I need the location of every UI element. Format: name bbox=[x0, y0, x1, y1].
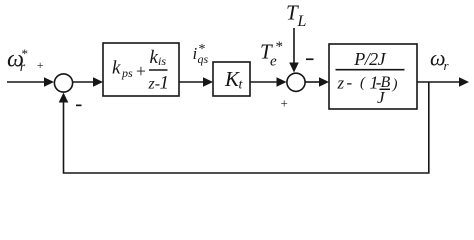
svg-text:): ) bbox=[392, 77, 398, 93]
svg-text:-: - bbox=[347, 73, 353, 92]
svg-text:e: e bbox=[270, 54, 277, 70]
svg-text:z: z bbox=[337, 74, 345, 93]
svg-text:+: + bbox=[281, 96, 288, 111]
svg-text:L: L bbox=[297, 13, 307, 30]
svg-text:*: * bbox=[276, 39, 284, 55]
svg-text:z-: z- bbox=[148, 76, 161, 93]
svg-text:1: 1 bbox=[160, 73, 170, 94]
svg-text:P/2J: P/2J bbox=[353, 49, 386, 69]
svg-text:is: is bbox=[158, 54, 166, 68]
svg-text:r: r bbox=[20, 60, 26, 75]
svg-text:ps: ps bbox=[121, 66, 133, 80]
svg-text:*: * bbox=[22, 46, 29, 61]
svg-text:+: + bbox=[136, 61, 146, 81]
svg-text:k: k bbox=[112, 58, 121, 79]
svg-text:+: + bbox=[37, 58, 44, 72]
svg-text:*: * bbox=[199, 42, 206, 57]
